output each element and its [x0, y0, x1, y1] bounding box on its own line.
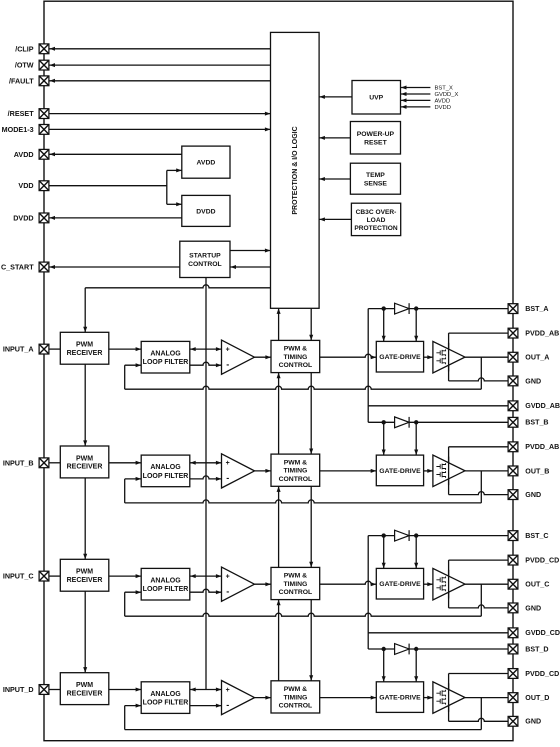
pin /OTW [15, 60, 49, 70]
wire loop filter C to comparator noninverting [190, 574, 222, 578]
svg-text:PROTECTION & I/O LOGIC: PROTECTION & I/O LOGIC [292, 126, 299, 214]
power stage D [433, 682, 465, 714]
svg-text:GVDD_CD: GVDD_CD [525, 629, 560, 637]
node bootstrap anode A [382, 306, 386, 310]
wire loop filter D to comparator inverting [190, 704, 222, 708]
wire OUT_C row [465, 583, 508, 585]
svg-text:RESET: RESET [364, 139, 388, 146]
svg-text:GND: GND [525, 491, 541, 499]
pin VDD [18, 181, 48, 191]
svg-text:CONTROL: CONTROL [188, 261, 222, 268]
wire bootstrap row C [368, 535, 508, 537]
svg-text:RECEIVER: RECEIVER [67, 350, 103, 357]
startup ramp bus [205, 278, 207, 690]
svg-text:PWM &: PWM & [284, 459, 307, 466]
wire loop filter A to comparator noninverting [190, 347, 222, 351]
svg-text:PROTECTION: PROTECTION [354, 225, 397, 232]
svg-text:C_START: C_START [1, 263, 34, 272]
svg-text:OUT_C: OUT_C [525, 581, 549, 589]
svg-text:BST_C: BST_C [525, 532, 548, 540]
startup control block [180, 241, 230, 277]
comparator B [222, 454, 255, 488]
svg-text:DVDD: DVDD [196, 208, 215, 215]
svg-text:LOAD: LOAD [367, 217, 386, 224]
PWM receiver enable bus [83, 288, 87, 673]
wire feedback line C [125, 613, 482, 616]
wire output feedback tap D [480, 698, 482, 730]
node bootstrap anode B [382, 420, 386, 424]
svg-text:LOOP FILTER: LOOP FILTER [143, 586, 189, 593]
PWM receiver A [60, 332, 109, 364]
pin PVDD_AB [508, 328, 559, 338]
svg-text:CONTROL: CONTROL [279, 476, 313, 483]
wire bootstrap row B [368, 421, 508, 423]
svg-text:CB3C OVER-: CB3C OVER- [356, 209, 397, 216]
wire /CLIP from protection logic [49, 47, 271, 51]
wire UVP to protection logic [319, 95, 352, 99]
wire PWM timing control C to gate-drive [320, 581, 377, 586]
PWM receiver D [60, 673, 109, 705]
wire protection logic to startup control [230, 265, 271, 269]
svg-text:LOOP FILTER: LOOP FILTER [143, 473, 189, 480]
wire PVDD row C [449, 559, 509, 561]
node bootstrap cathode A [414, 306, 418, 310]
wire VDD pin to regulators [49, 168, 182, 206]
wire /OTW from protection logic [49, 63, 271, 67]
wire /RESET to protection logic [49, 112, 271, 116]
wire overload protection to protection logic [319, 217, 351, 221]
svg-text:PVDD_CD: PVDD_CD [525, 670, 559, 678]
pin GVDD_CD [508, 628, 560, 638]
gate-drive B [376, 455, 423, 486]
PWM and timing control A [271, 340, 320, 372]
pin BST_C [508, 531, 548, 541]
svg-text:PVDD_CD: PVDD_CD [525, 557, 559, 565]
svg-text:+: + [226, 687, 230, 694]
svg-text:/RESET: /RESET [8, 109, 35, 118]
svg-text:/CLIP: /CLIP [15, 44, 34, 53]
svg-text:GND: GND [525, 718, 541, 726]
pin OUT_D [508, 693, 549, 703]
pin BST_B [508, 417, 548, 427]
wire loop filter B to comparator inverting [190, 476, 222, 481]
svg-text:-: - [226, 359, 229, 369]
pin GND (2) [508, 490, 541, 500]
wire PWM receiver C to loop filter [109, 574, 141, 578]
svg-text:INPUT_C: INPUT_C [3, 572, 34, 581]
svg-text:-: - [226, 700, 229, 710]
pin OUT_B [508, 466, 549, 476]
PWM and timing control C [271, 567, 320, 599]
wire bootstrap to gate-drive D right [414, 649, 418, 682]
svg-text:BST_B: BST_B [525, 419, 548, 427]
wire INPUT_D pin to PWM receiver [49, 689, 60, 691]
wire power-up reset to protection logic [319, 136, 350, 140]
svg-text:TIMING: TIMING [284, 581, 308, 588]
svg-text:AVDD: AVDD [197, 160, 216, 167]
PWM receiver B [60, 446, 109, 478]
svg-text:UVP: UVP [369, 95, 383, 102]
pin /RESET [8, 109, 49, 119]
wire output feedback tap C [480, 584, 482, 616]
wire PWM receiver A to loop filter [109, 347, 141, 351]
wire comparator A to PWM timing control [255, 355, 272, 359]
wire feedback line D [125, 729, 482, 731]
pin INPUT_A [3, 344, 49, 354]
pin INPUT_C [3, 571, 49, 581]
wire comparator D to PWM timing control [255, 696, 272, 700]
svg-text:PWM: PWM [76, 455, 93, 462]
node bootstrap anode D [382, 647, 386, 651]
node bootstrap cathode C [414, 533, 418, 537]
gate-drive A [376, 341, 423, 372]
svg-text:TEMP: TEMP [366, 172, 385, 179]
wire bootstrap to gate-drive B left [382, 422, 386, 455]
wire bootstrap row A [368, 308, 508, 310]
svg-text:+: + [226, 574, 230, 581]
svg-text:RECEIVER: RECEIVER [67, 690, 103, 697]
wire temp sense to protection logic [319, 177, 350, 181]
pin /FAULT [9, 76, 49, 86]
wire GND row A [449, 378, 509, 381]
svg-text:ANALOG: ANALOG [150, 577, 181, 584]
wire feedback to loop filter A [125, 363, 142, 389]
svg-text:GND: GND [525, 377, 541, 385]
svg-text:POWER-UP: POWER-UP [357, 131, 395, 138]
UVP supply inputs BST_X GVDD_X AVDD DVDD [401, 86, 459, 112]
pin GND (4) [508, 716, 541, 726]
pin BST_A [508, 304, 548, 314]
PWM and timing control D [271, 681, 320, 713]
svg-text:BST_A: BST_A [525, 305, 548, 313]
pin PVDD_CD (2) [508, 669, 559, 679]
pin C_START [1, 262, 49, 272]
bootstrap diode D2 [395, 417, 410, 428]
svg-text:AVDD: AVDD [435, 99, 451, 105]
svg-text:VDD: VDD [18, 181, 33, 190]
wire PWM receiver B to loop filter [109, 461, 141, 465]
wire feedback to loop filter D [125, 704, 142, 730]
wire GND row D [449, 718, 509, 721]
pin GND (3) [508, 603, 541, 613]
wire power stage supply C [448, 560, 450, 608]
svg-text:PWM &: PWM & [284, 346, 307, 353]
wire PWM timing control B to gate-drive [320, 469, 377, 473]
power stage B [433, 455, 465, 487]
wire bootstrap to gate-drive B right [414, 422, 418, 455]
wire power stage supply A [448, 333, 450, 381]
wire bootstrap row D [368, 648, 508, 650]
svg-text:OUT_D: OUT_D [525, 694, 549, 702]
svg-text:+: + [226, 460, 230, 467]
svg-text:PVDD_AB: PVDD_AB [525, 443, 559, 451]
svg-text:SENSE: SENSE [364, 180, 388, 187]
power stage C [433, 568, 465, 600]
svg-text:-: - [226, 586, 229, 596]
wire bootstrap to gate-drive C right [414, 536, 418, 569]
pin PVDD_AB (2) [508, 442, 559, 452]
svg-text:CONTROL: CONTROL [279, 589, 313, 596]
analog loop filter D [141, 682, 190, 714]
svg-text:GND: GND [525, 604, 541, 612]
svg-text:BST_D: BST_D [525, 645, 548, 653]
wire /FAULT from protection logic [49, 79, 271, 83]
wire PWM receiver D to loop filter [109, 688, 141, 692]
bootstrap diode D3 [395, 530, 410, 541]
wire loop filter C to comparator inverting [190, 589, 222, 594]
svg-text:RECEIVER: RECEIVER [67, 577, 103, 584]
svg-text:PWM &: PWM & [284, 686, 307, 693]
wire GND row B [449, 492, 509, 495]
svg-text:STARTUP: STARTUP [189, 253, 221, 260]
svg-text:BST_X: BST_X [435, 86, 453, 92]
wire protection logic to PWM receivers feed [85, 285, 270, 288]
node bootstrap cathode D [414, 647, 418, 651]
bootstrap diode D1 [395, 303, 410, 314]
gate-drive D [376, 682, 423, 713]
power-up reset block [350, 122, 400, 155]
svg-text:ANALOG: ANALOG [150, 350, 181, 357]
svg-text:GATE-DRIVE: GATE-DRIVE [379, 354, 421, 361]
wire gate-drive C to power stage [424, 582, 433, 586]
wire power stage supply B [448, 447, 450, 495]
wire MODE1-3 to protection logic [49, 127, 271, 131]
wire loop filter D to comparator noninverting [190, 688, 222, 692]
pin PVDD_CD [508, 555, 559, 565]
UVP block [352, 81, 401, 115]
PWM control bus from protection logic [309, 308, 313, 681]
wire AVDD regulator to AVDD pin [49, 152, 182, 156]
svg-text:GATE-DRIVE: GATE-DRIVE [379, 581, 421, 588]
gate-drive C [376, 568, 423, 599]
wire gate-drive B to power stage [424, 469, 433, 473]
pin /CLIP [15, 44, 49, 54]
svg-text:GVDD_AB: GVDD_AB [525, 402, 560, 410]
pin INPUT_B [3, 458, 49, 468]
wire INPUT_A pin to PWM receiver [49, 348, 60, 350]
wire PVDD row B [449, 446, 509, 448]
CB3C overload protection block [351, 203, 400, 235]
svg-text:LOOP FILTER: LOOP FILTER [143, 700, 189, 707]
svg-text:ANALOG: ANALOG [150, 464, 181, 471]
svg-text:-: - [226, 473, 229, 483]
analog loop filter B [141, 455, 190, 487]
temp sense block [350, 163, 400, 194]
node bootstrap anode C [382, 533, 386, 537]
protection and I/O logic block [271, 32, 320, 308]
svg-text:/FAULT: /FAULT [9, 76, 34, 85]
wire bootstrap to gate-drive C left [382, 536, 386, 569]
svg-text:PWM: PWM [76, 682, 93, 689]
pin AVDD [14, 149, 49, 159]
analog loop filter C [141, 568, 190, 600]
wire PWM timing control A to gate-drive [320, 354, 377, 359]
svg-text:INPUT_B: INPUT_B [3, 458, 34, 467]
bootstrap diode D4 [395, 644, 410, 655]
pin OUT_C [508, 579, 549, 589]
wire DVDD regulator to DVDD pin [49, 216, 182, 220]
svg-text:PWM &: PWM & [284, 573, 307, 580]
svg-text:DVDD: DVDD [435, 105, 451, 111]
pin OUT_A [508, 352, 549, 362]
wire loop filter B to comparator noninverting [190, 461, 222, 465]
wire gate-drive D to power stage [424, 696, 433, 700]
svg-text:OUT_B: OUT_B [525, 467, 549, 475]
wire bootstrap to gate-drive D left [382, 649, 386, 682]
pin BST_D [508, 644, 548, 654]
wire bootstrap to gate-drive A right [414, 309, 418, 342]
svg-text:TIMING: TIMING [284, 354, 308, 361]
pin GND [508, 376, 541, 386]
wire output feedback tap B [480, 471, 482, 503]
PWM receiver C [60, 559, 109, 591]
regulator DVDD [182, 195, 230, 226]
wire PWM timing control D to gate-drive [320, 696, 377, 700]
wire gate-drive A to power stage [424, 355, 433, 359]
comparator D [222, 681, 255, 715]
comparator A [222, 340, 255, 374]
svg-text:CONTROL: CONTROL [279, 362, 313, 369]
svg-text:TIMING: TIMING [284, 694, 308, 701]
wire INPUT_C pin to PWM receiver [49, 575, 60, 577]
wire OUT_A row [465, 356, 508, 358]
svg-text:GVDD_X: GVDD_X [435, 92, 459, 98]
wire GVDD_AB supply rail [368, 309, 508, 423]
svg-text:LOOP FILTER: LOOP FILTER [143, 359, 189, 366]
wire bootstrap to gate-drive A left [382, 309, 386, 342]
wire PVDD row A [449, 332, 509, 334]
pin INPUT_D [3, 685, 49, 695]
wire OUT_D row [465, 697, 508, 699]
svg-text:RECEIVER: RECEIVER [67, 464, 103, 471]
svg-text:DVDD: DVDD [13, 213, 33, 222]
PWM status bus to protection logic [277, 308, 281, 681]
PWM and timing control B [271, 454, 320, 486]
wire INPUT_B pin to PWM receiver [49, 462, 60, 464]
wire loop filter A to comparator inverting [190, 362, 222, 367]
svg-text:PWM: PWM [76, 569, 93, 576]
wire power stage supply D [448, 674, 450, 722]
pin DVDD [13, 213, 49, 223]
wire GND row C [449, 605, 509, 608]
power stage A [433, 341, 465, 373]
wire feedback to loop filter C [125, 590, 142, 616]
regulator AVDD [182, 146, 230, 178]
comparator C [222, 567, 255, 601]
wire feedback to loop filter B [125, 477, 142, 503]
analog loop filter A [141, 341, 190, 373]
wire PVDD row D [449, 673, 509, 675]
svg-text:ANALOG: ANALOG [150, 691, 181, 698]
svg-text:/OTW: /OTW [15, 61, 34, 70]
wire feedback line A [125, 386, 482, 389]
node bootstrap cathode B [414, 420, 418, 424]
svg-text:OUT_A: OUT_A [525, 354, 549, 362]
wire comparator C to PWM timing control [255, 582, 272, 586]
wire GVDD_CD supply rail [368, 536, 508, 649]
svg-text:+: + [226, 347, 230, 354]
wire startup control to protection logic [230, 249, 271, 253]
svg-text:INPUT_D: INPUT_D [3, 685, 34, 694]
pin GVDD_AB [508, 401, 560, 411]
wire comparator B to PWM timing control [255, 469, 272, 473]
svg-text:AVDD: AVDD [14, 150, 34, 159]
wire startup control to C_START pin [49, 265, 180, 269]
svg-text:TIMING: TIMING [284, 468, 308, 475]
svg-text:INPUT_A: INPUT_A [3, 345, 34, 354]
svg-text:GATE-DRIVE: GATE-DRIVE [379, 468, 421, 475]
svg-text:PWM: PWM [76, 342, 93, 349]
svg-text:PVDD_AB: PVDD_AB [525, 330, 559, 338]
wire feedback line B [125, 500, 482, 503]
svg-text:GATE-DRIVE: GATE-DRIVE [379, 695, 421, 702]
svg-text:CONTROL: CONTROL [279, 703, 313, 710]
pin MODE1-3 [2, 125, 49, 135]
svg-text:MODE1-3: MODE1-3 [2, 125, 34, 134]
wire output feedback tap A [480, 357, 482, 389]
wire OUT_B row [465, 470, 508, 472]
